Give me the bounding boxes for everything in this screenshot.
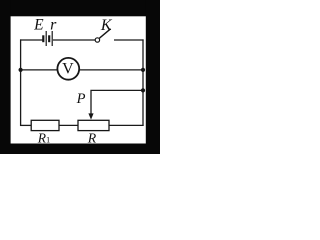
svg-text:V: V <box>62 61 74 78</box>
battery E r <box>43 31 52 46</box>
junction dot: right vertical / wiper row <box>141 88 145 92</box>
junction dot: right vertical / voltmeter row <box>141 68 145 72</box>
wire: R to bottom-right corner <box>109 124 144 126</box>
wire: voltmeter row, left segment <box>21 69 58 71</box>
wire: voltmeter row, right segment <box>79 69 143 71</box>
wire: switch to top-right corner <box>114 39 144 41</box>
svg-text:P: P <box>76 91 86 107</box>
switch K <box>95 29 110 42</box>
wire: bottom row, left corner to R1 <box>20 124 32 126</box>
wire: right vertical <box>142 39 144 126</box>
voltmeter V <box>57 58 79 80</box>
resistor R1 <box>31 120 59 130</box>
wire: battery to switch <box>53 39 95 41</box>
svg-text:r: r <box>50 16 57 33</box>
wire: R1 to R <box>59 124 78 126</box>
wire: left vertical (battery row down to bottom row) <box>20 39 22 126</box>
wire: wiper row (from arrow up and right to right vertical) <box>91 90 143 114</box>
svg-text:K: K <box>100 17 113 34</box>
svg-text:E: E <box>33 16 44 33</box>
wire: top row, left vertical to battery <box>20 39 43 41</box>
wiper arrow onto rheostat R <box>88 113 93 119</box>
svg-text:R: R <box>87 130 97 145</box>
rheostat R <box>78 120 109 130</box>
junction dot: left vertical / voltmeter row <box>19 68 23 72</box>
